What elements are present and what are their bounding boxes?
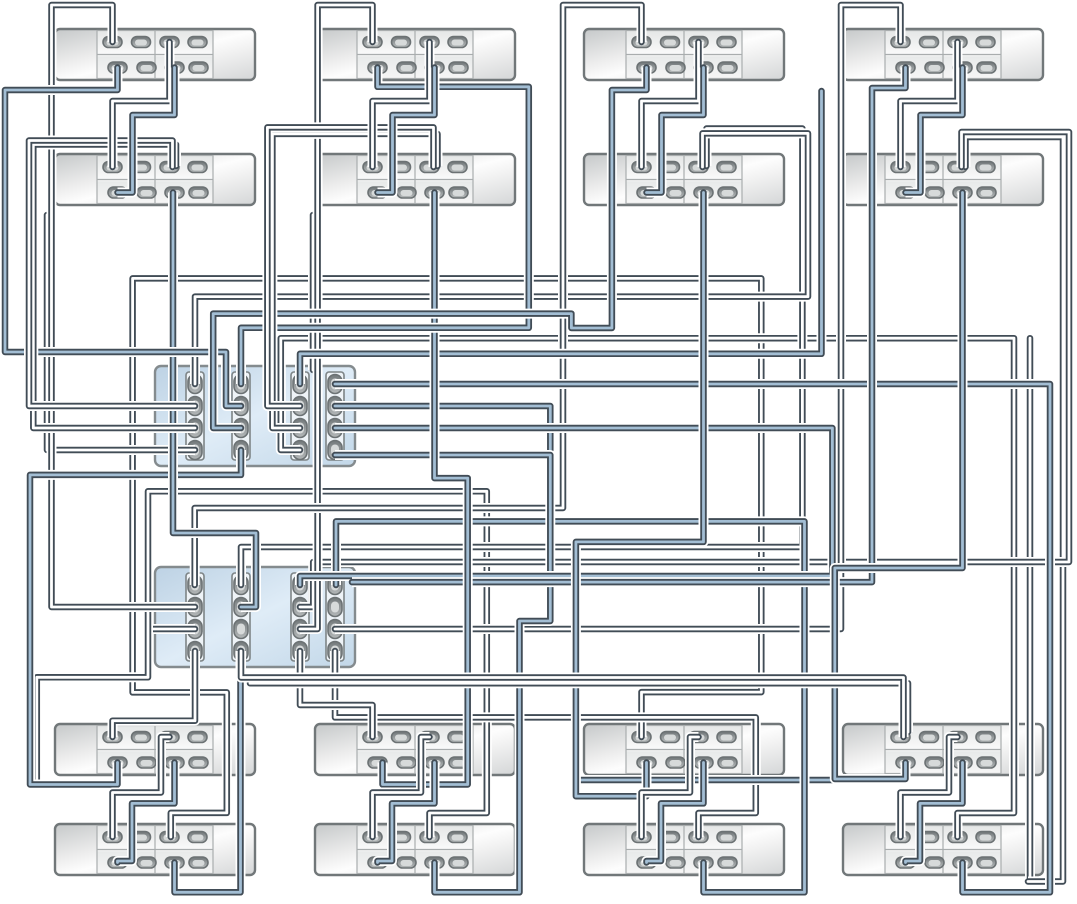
disk shelf C1-B1 xyxy=(55,724,255,775)
wire F2 shelf C2-T2 to shelf C2-B1 xyxy=(383,193,468,785)
wire D2-C1 shelf C1-T1 to C1-T2 row2 daisy xyxy=(118,68,175,193)
disk shelf C1-B2 xyxy=(55,824,255,875)
wire D1-C2 shelf C2-T1 to C2-T2 row1 daisy xyxy=(373,42,430,167)
wire G1 shelf C1-B2 to shelf C3-B1 traverse xyxy=(133,278,762,837)
wire E3 shelf C3-T2 to controller U1 port s1p1 xyxy=(195,133,808,384)
disk shelf C2-B2 xyxy=(315,824,515,875)
wire D3-C1 shelf C1-B1 to C1-B2 row1 daisy xyxy=(113,737,170,837)
disk shelf C2-T2 xyxy=(315,154,515,205)
wire V1 shelf C1-T1 to controller U1 port s2p2 xyxy=(5,68,241,407)
wire U2b twin leg cosmetic xyxy=(308,215,318,370)
wire U2 shelf C2-T1 to controller U2 port s3p3 xyxy=(300,5,373,629)
wire D4-C1 shelf C1-B1 to C1-B2 row2 daisy xyxy=(118,763,175,863)
disk shelf C4-B2 xyxy=(843,824,1043,875)
wire D2-C4 shelf C4-T1 to C4-T2 row2 daisy xyxy=(906,68,963,193)
wire V2 shelf C2-T1 to controller U1 port s2p1 xyxy=(241,68,529,385)
wire UC2 shelf C2-B2 to controller U1 port s4p4b xyxy=(335,455,550,892)
disk shelf C1-T1 xyxy=(55,29,255,80)
wire H4b twin run to shelf C4-B1 xyxy=(250,683,908,732)
wire F1 controller U1 s2p4 to shelf C1-B1 xyxy=(30,450,241,785)
wire V4b branch to controller U1 port s3p1 xyxy=(300,91,822,384)
wire E2 shelf C2-T2 to controller U1 port s3p2 xyxy=(267,127,433,406)
wire X controller U1 s4p3 to controller U2 s3p1 xyxy=(300,428,832,585)
wire D1-C4 shelf C4-T1 to C4-T2 row1 daisy xyxy=(901,42,958,167)
disk shelf C3-B2 xyxy=(584,824,784,875)
disk shelf C4-T1 xyxy=(843,29,1043,80)
wire G4 shelf C4-B2 to controller U1 port s3p4 xyxy=(281,338,1014,837)
wire D4-C2 shelf C2-B1 to C2-B2 row2 daisy xyxy=(378,763,435,863)
wire D2-C3 shelf C3-T1 to C3-T2 row2 daisy xyxy=(647,68,704,193)
wire V3 shelf C3-T1 to controller U1 port s2p3 xyxy=(213,68,646,429)
wire E2b shelf C2-T2 twin to controller U1 port s3p3 xyxy=(272,134,437,428)
wire V4 shelf C4-T1 toward controller U2 s4 side xyxy=(352,68,906,583)
disk shelf C1-T2 xyxy=(55,154,255,205)
wire E4b twin shelf C4-T2 xyxy=(966,137,1064,882)
wire R1030 cosmetic right margin lane xyxy=(1025,338,1035,881)
wire H4 controller U2 s2p4 to shelf C4-B1 xyxy=(241,651,904,737)
wire E4 shelf C4-T2 to controller U2 port s3p2 xyxy=(300,132,1069,607)
wire F3 shelf C3-T2 to shelf C3-B1 xyxy=(576,193,704,797)
wire S4P2 stub controller U1 xyxy=(335,406,550,450)
wire UC3 shelf C3-B2 to controller U2 port s4p1 via mid band xyxy=(336,521,805,892)
wire D2-C2 shelf C2-T1 to C2-T2 row2 daisy xyxy=(378,68,435,193)
wire UC4 shelf C4-B2 to controller U1 port s4p1 xyxy=(335,384,1050,892)
disk shelf C3-T2 xyxy=(584,154,784,205)
wire U3 shelf C3-T1 to controller U2 port s1p1 xyxy=(195,5,642,585)
wire G2 shelf C2-B2 traverse to lower left xyxy=(37,491,487,837)
wire E3b shelf C3-T2 twin to controller U2 port s2p1 xyxy=(241,129,802,586)
controller U2 xyxy=(155,567,355,667)
wire D4-C4 shelf C4-B1 to C4-B2 row2 daisy xyxy=(906,763,963,863)
wire G2b stub controller U2 port s1p3 xyxy=(148,624,195,634)
wire F4 shelf C4-T2 to shelf C4-B1 xyxy=(835,193,963,780)
wire D1-C3 shelf C3-T1 to C3-T2 row1 daisy xyxy=(642,42,699,167)
wire UC1 shelf C1-B2 to controller U2 port s2p4 xyxy=(175,651,241,892)
wire D3-C3 shelf C3-B1 to C3-B2 row1 daisy xyxy=(642,737,699,837)
wire G3 shelf C3-B2 to controller U2 port s4p4 xyxy=(335,651,756,837)
disk shelf C3-B1 xyxy=(584,724,784,775)
wire W780 cosmetic blue run lower right xyxy=(576,775,835,785)
wire D1-C1 shelf C1-T1 to C1-T2 row1 daisy xyxy=(113,42,170,167)
wire U1b twin leg to controller U1 port s1p4 xyxy=(47,215,195,450)
controller U1 xyxy=(155,366,355,466)
disk shelf C4-T2 xyxy=(843,154,1043,205)
wire D3-C2 shelf C2-B1 to C2-B2 row1 daisy xyxy=(373,737,430,837)
disk shelf C3-T1 xyxy=(584,29,784,80)
disk shelf C4-B1 xyxy=(843,724,1043,775)
wire D3-C4 shelf C4-B1 to C4-B2 row1 daisy xyxy=(901,737,958,837)
wire H2 controller U2 s3p4 to shelf C2-B1 xyxy=(300,651,373,737)
wire D4-C3 shelf C3-B1 to C3-B2 row2 daisy xyxy=(647,763,704,863)
wire H1 controller U2 s1p4 to shelf C1-B1 xyxy=(113,651,196,737)
wire U4 shelf C4-T1 to controller U2 port s4p3 xyxy=(335,5,901,629)
wire U1 shelf C1-T1 to controller U2 port s1p2 xyxy=(52,5,196,607)
wire E1 shelf C1-T2 to controller U1 port s1p2 xyxy=(29,141,195,407)
wire E1b shelf C1-T2 twin to controller U1 port s1p3 xyxy=(33,145,195,429)
disk shelf C2-B1 xyxy=(315,724,515,775)
wire K1 shelf C1-T2 to controller U2 port s2p2 xyxy=(173,193,256,608)
disk shelf C2-T1 xyxy=(315,29,515,80)
